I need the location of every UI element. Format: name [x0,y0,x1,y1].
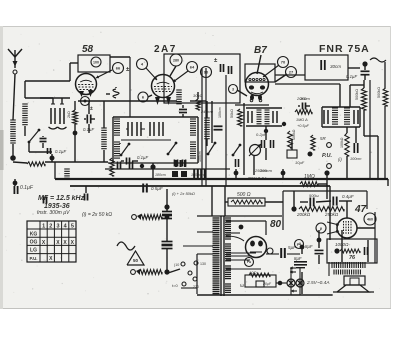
svg-text:100cm: 100cm [350,157,361,161]
svg-text:OG: OG [30,240,38,246]
svg-text:2kΩ: 2kΩ [67,111,71,118]
svg-text:280: 280 [173,58,179,62]
svg-text:460: 460 [367,217,373,221]
svg-text:3: 3 [232,87,234,91]
svg-text:90: 90 [204,69,209,74]
svg-text:200kΩ: 200kΩ [296,212,311,217]
svg-text:250kΩ: 250kΩ [324,212,339,217]
svg-text:250cm: 250cm [259,168,273,173]
svg-text:100: 100 [93,60,99,64]
svg-text:±: ± [90,106,93,112]
svg-text:5: 5 [71,224,74,230]
svg-text:130: 130 [200,262,206,266]
svg-text:50kΩ: 50kΩ [230,109,234,118]
svg-text:KG: KG [30,232,38,238]
svg-text:1MΩ: 1MΩ [304,174,315,180]
svg-text:8µF: 8µF [294,256,302,261]
svg-text:66: 66 [116,65,121,70]
svg-text:0.1µF: 0.1µF [20,185,34,191]
svg-text:76: 76 [349,255,356,261]
svg-text:180cm: 180cm [155,173,166,177]
svg-text:0.1µF: 0.1µF [346,74,357,79]
svg-text:27: 27 [289,69,294,74]
svg-text:80: 80 [270,219,282,230]
svg-text:100kΩ: 100kΩ [292,129,296,140]
svg-text:B7: B7 [254,45,267,56]
svg-text:8µF: 8µF [305,244,313,249]
svg-text:E5Y-0.6A: E5Y-0.6A [248,176,267,181]
svg-text:LG: LG [30,248,37,254]
svg-text:10µF: 10µF [295,160,305,165]
svg-text:1: 1 [42,224,45,230]
svg-text:(i): (i) [338,157,342,162]
svg-text:t=0: t=0 [172,283,178,288]
svg-text:2.5V~0.4A: 2.5V~0.4A [306,280,330,286]
svg-text:100cm: 100cm [218,107,222,118]
svg-text:30cm: 30cm [330,64,341,69]
svg-text:1935-36: 1935-36 [44,203,70,210]
svg-text:70: 70 [281,59,286,64]
svg-text:20µF: 20µF [262,282,272,286]
svg-text:40Ω: 40Ω [249,270,257,275]
svg-text:500kΩ: 500kΩ [377,87,381,98]
svg-text:(10: (10 [174,263,179,267]
svg-text:2: 2 [49,224,52,230]
svg-text:500kΩ: 500kΩ [355,89,359,100]
svg-text:100cm: 100cm [198,151,202,162]
svg-text:FNR 75A: FNR 75A [319,43,370,55]
svg-text:0.2µF: 0.2µF [256,132,267,137]
svg-text:0.5µF: 0.5µF [151,186,163,191]
svg-text:P.U.: P.U. [30,256,38,261]
svg-text:ω: ω [240,283,244,289]
svg-text:47: 47 [354,204,367,215]
svg-text:0.1µF: 0.1µF [137,155,148,160]
svg-text:20cm: 20cm [299,96,310,101]
svg-text:2A7: 2A7 [154,44,177,55]
svg-text:0.1µF: 0.1µF [55,149,66,154]
svg-text:0.4µF: 0.4µF [342,194,354,199]
svg-text:Pu: Pu [247,260,251,264]
svg-text:64: 64 [190,64,195,69]
svg-text:+0.5µF: +0.5µF [297,124,310,128]
svg-text:500 Ω: 500 Ω [237,192,251,198]
svg-text:(i) + 2x 50kΩ: (i) + 2x 50kΩ [172,191,195,196]
svg-text:P.U.: P.U. [322,153,332,159]
svg-text:Instr. 300m µV: Instr. 300m µV [37,210,70,216]
svg-text:µA: µA [297,242,302,246]
svg-text:100kΩ: 100kΩ [340,137,344,148]
svg-text:50: 50 [133,258,139,263]
svg-text:500ω: 500ω [309,193,319,198]
svg-text:3: 3 [56,224,59,230]
svg-text:MF = 12.5 kHz: MF = 12.5 kHz [38,195,85,202]
svg-text:1MΩ Δ: 1MΩ Δ [296,118,308,122]
svg-text:(i) = 2x 50 kΩ: (i) = 2x 50 kΩ [82,212,112,218]
svg-text:58: 58 [82,44,94,55]
svg-text:5R: 5R [320,136,327,141]
